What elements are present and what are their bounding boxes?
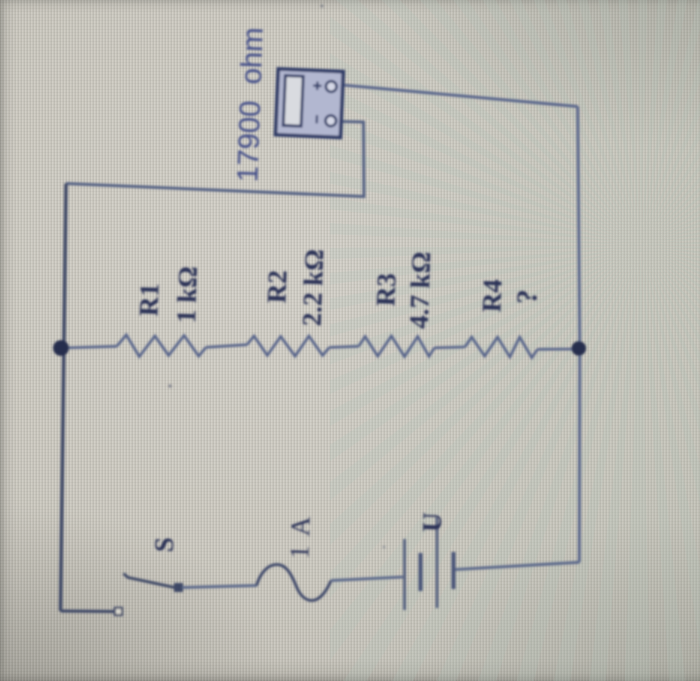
switch S closed contact (square) bbox=[175, 584, 183, 592]
wire: source to battery bbox=[331, 577, 403, 581]
node: left junction dot bbox=[53, 340, 69, 356]
wire: switch to source bbox=[182, 586, 257, 588]
battery U short plate 1 bbox=[419, 553, 423, 591]
resistor R1 bbox=[117, 335, 206, 357]
resistor R4 bbox=[465, 337, 538, 358]
svg-text:1 A: 1 A bbox=[284, 514, 316, 559]
dust speck bbox=[168, 384, 171, 387]
svg-text:4.7 kΩ: 4.7 kΩ bbox=[404, 251, 437, 329]
svg-text:2.2 kΩ: 2.2 kΩ bbox=[297, 249, 330, 327]
wire: R4 to right node bbox=[538, 348, 581, 351]
source sine squiggle bbox=[257, 565, 332, 601]
battery U short plate 2 bbox=[452, 552, 456, 589]
wire: resistor chain left segment bbox=[61, 346, 117, 348]
switch S blade bbox=[124, 574, 178, 589]
svg-text:R3: R3 bbox=[370, 273, 401, 307]
svg-text:17900 ohm: 17900 ohm bbox=[231, 27, 269, 183]
svg-text:S: S bbox=[149, 537, 180, 553]
resistor R3 bbox=[359, 336, 435, 357]
ohmmeter minus sign (rotated) bbox=[316, 115, 318, 123]
wire: bottom-left horizontal to switch terminal bbox=[61, 610, 115, 614]
ohmmeter plus sign bbox=[313, 81, 322, 90]
battery U long plate 1 bbox=[403, 539, 406, 610]
wire: R1 to R2 bbox=[206, 345, 247, 348]
svg-text:U: U bbox=[417, 512, 448, 533]
svg-text:?: ? bbox=[511, 289, 543, 305]
svg-text:R1: R1 bbox=[133, 283, 164, 317]
wire: top-left horizontal from meter bottom loop bbox=[66, 122, 364, 197]
svg-text:1 kΩ: 1 kΩ bbox=[171, 266, 203, 324]
wire: top-right horizontal to meter bbox=[343, 85, 578, 107]
dust speck bbox=[383, 546, 386, 549]
dust speck bbox=[321, 5, 324, 8]
svg-text:R2: R2 bbox=[261, 270, 292, 304]
battery U long plate 2 bbox=[436, 517, 439, 608]
wire: right vertical bbox=[578, 107, 580, 563]
svg-text:R4: R4 bbox=[476, 279, 507, 313]
wire: left vertical bbox=[61, 184, 67, 612]
ohmmeter display screen bbox=[283, 76, 303, 127]
wire: R2 to R3 bbox=[329, 346, 358, 347]
meter M1: ohmmeter body bbox=[276, 69, 344, 138]
ohmmeter plus terminal bbox=[326, 81, 337, 92]
wire: R3 to R4 bbox=[434, 346, 465, 349]
ohmmeter minus terminal bbox=[325, 115, 336, 126]
switch S open terminal (square) bbox=[115, 608, 122, 615]
wire: battery to bottom-right corner bbox=[456, 562, 580, 569]
resistor R2 bbox=[247, 336, 329, 356]
node: right junction dot bbox=[572, 341, 586, 355]
